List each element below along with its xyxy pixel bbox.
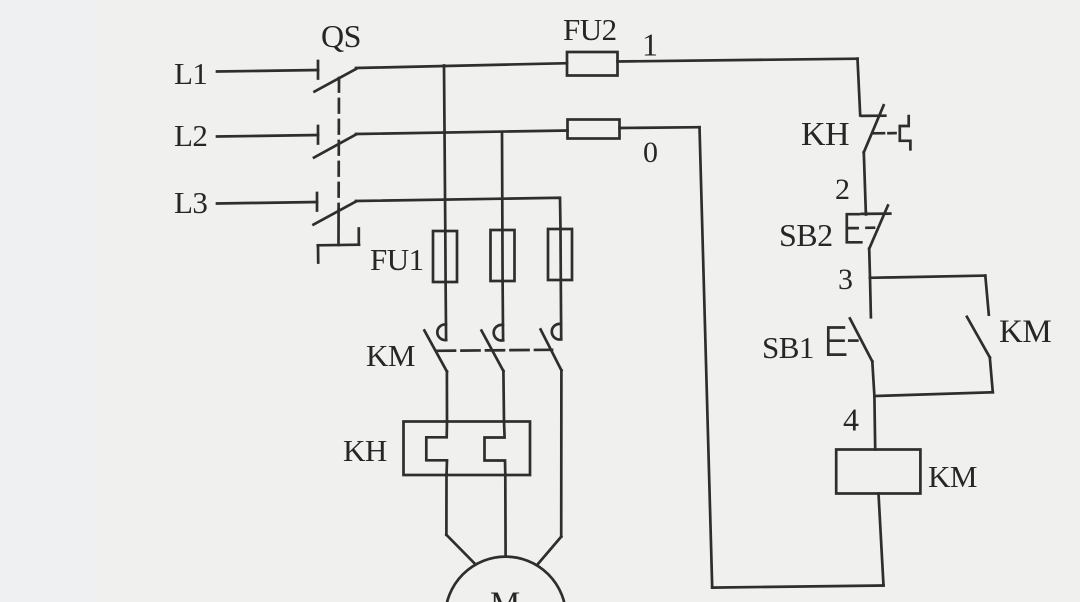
wire L1 phase drop: [444, 66, 445, 232]
coil KM body: [836, 450, 920, 494]
relay KH NC contact top bar: [862, 114, 886, 117]
switch QS pole2 fixed terminal: [317, 126, 320, 144]
wire to KM pole B: [501, 281, 504, 340]
svg-text:1: 1: [642, 27, 658, 63]
svg-text:SB1: SB1: [762, 330, 814, 365]
KH heater element phase A: [426, 422, 447, 476]
svg-text:KM: KM: [366, 338, 415, 373]
wire 0 vertical drop: [700, 127, 713, 587]
wire fuse3 inner: [559, 229, 562, 280]
svg-text:L2: L2: [174, 118, 207, 153]
switch QS pole3 fixed terminal: [316, 193, 319, 211]
wire SB2 upper stub: [864, 212, 867, 215]
wire KM A to KH: [446, 372, 449, 422]
svg-text:FU1: FU1: [370, 242, 424, 277]
switch QS mechanical link dashed: [337, 78, 340, 210]
fuse FU1a body: [433, 231, 457, 282]
relay KH contact link dash2: [889, 132, 896, 135]
fuse FU2b body: [568, 120, 620, 139]
relay KH contact link dash: [874, 132, 885, 135]
switch QS pole1 fixed terminal: [317, 61, 320, 79]
motor M circle: [445, 557, 566, 602]
button SB2 cap: [847, 214, 862, 242]
relay KH reset bracket: [900, 116, 911, 149]
wire KH to SB2: [864, 152, 866, 211]
wire to KM pole C: [559, 280, 562, 339]
switch QS pole2 blade: [314, 135, 356, 158]
switch QS pole3 blade: [314, 202, 357, 225]
svg-text:KH: KH: [343, 433, 387, 468]
fuse FU1c body: [548, 229, 572, 280]
wire KM C down to motor: [560, 370, 563, 536]
contact KM aux blade: [967, 317, 990, 358]
wire slant to motor right: [538, 537, 562, 565]
wire SB1 to node4: [872, 361, 874, 396]
switch QS pole1 blade: [315, 69, 357, 92]
wire L3 lead-in: [217, 202, 317, 204]
wire node3 to SB1: [869, 278, 873, 318]
contactor KM pole C blade: [541, 330, 562, 371]
switch QS link solid stem: [337, 210, 340, 245]
contactor KM pole B blade: [482, 331, 504, 371]
contactor KM pole C fixed contact arc: [552, 324, 561, 340]
wire line 1 top: [618, 59, 858, 62]
wire line 0 top: [620, 126, 700, 130]
KH heater element phase B: [485, 422, 506, 476]
wire fuse1 inner: [444, 231, 447, 282]
switch QS handle bar: [318, 243, 359, 246]
wire L2 to FU2: [356, 131, 568, 135]
wire L1 lead-in: [217, 70, 318, 72]
switch QS handle left tick: [317, 245, 320, 262]
wire fuse2 inner: [501, 230, 504, 281]
wire L2 lead-in: [217, 135, 318, 137]
wire control drop to KH contact: [858, 59, 861, 116]
button SB2 top bar: [862, 212, 891, 215]
button SB1 link dash: [849, 339, 857, 342]
contactor KM pole A fixed contact arc: [437, 324, 446, 340]
svg-text:3: 3: [838, 263, 853, 296]
svg-text:4: 4: [843, 402, 859, 438]
fuse FU2a body: [567, 52, 618, 76]
svg-text:L1: L1: [174, 56, 207, 91]
fuse FU1b body: [491, 230, 515, 281]
wire node4 to coil: [873, 396, 876, 449]
button SB2 link dash: [867, 226, 875, 229]
svg-text:FU2: FU2: [563, 12, 617, 47]
wire branch to KM aux: [870, 276, 985, 278]
svg-text:KM: KM: [928, 459, 977, 494]
button SB1 blade: [850, 318, 872, 361]
wire KM aux drop: [985, 276, 989, 315]
wire coil to bottom return: [879, 494, 884, 586]
svg-text:0: 0: [643, 136, 658, 169]
button SB2 blade: [869, 206, 888, 249]
svg-text:QS: QS: [321, 18, 361, 54]
wire to KM pole A: [444, 282, 447, 340]
wire L3 to FU1: [356, 198, 561, 229]
wire SB2 to node3: [868, 249, 871, 278]
wire KH A to motor: [445, 475, 448, 535]
contactor KM link dashed: [437, 350, 552, 351]
switch QS handle right tick: [357, 229, 360, 245]
contactor KM pole A blade: [424, 331, 447, 372]
wire KM aux lower: [990, 357, 993, 392]
svg-text:KH: KH: [801, 116, 849, 153]
wire slant to motor left: [446, 535, 474, 563]
relay KH NC contact blade: [864, 105, 884, 152]
wire bottom return: [712, 586, 883, 588]
svg-text:KM: KM: [999, 314, 1051, 350]
svg-text:2: 2: [835, 173, 850, 206]
contactor KM pole B fixed contact arc: [494, 325, 503, 341]
svg-text:L3: L3: [174, 185, 207, 220]
wire L2 phase drop: [501, 132, 504, 230]
wire branch return to node4: [874, 392, 992, 396]
button SB1 cap: [828, 328, 845, 355]
svg-text:SB2: SB2: [779, 217, 833, 253]
wire L1 to FU2: [356, 63, 567, 68]
svg-text:M: M: [490, 586, 520, 602]
wire KH B to motor: [504, 475, 507, 556]
thermal relay KH heater box: [404, 422, 531, 476]
wire KM B to KH: [502, 371, 505, 422]
